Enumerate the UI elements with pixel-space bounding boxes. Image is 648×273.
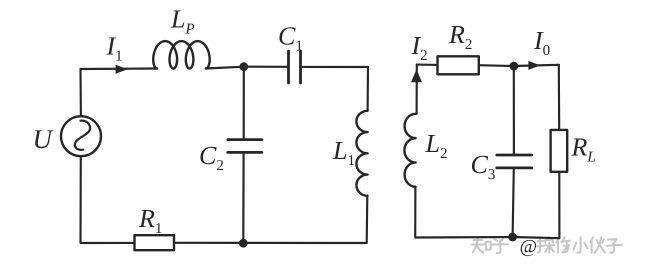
arrow I0 bbox=[528, 61, 540, 70]
arrow I2 bbox=[411, 69, 422, 82]
watermark char tan bbox=[537, 237, 554, 253]
capacitor C2 bbox=[228, 140, 262, 153]
wire: L1 to bottom-right corner to R1 bbox=[174, 196, 367, 243]
watermark char huo bbox=[590, 237, 604, 253]
wire: right circuit left vertical with I2 bbox=[416, 65, 418, 114]
resistor R2 bbox=[438, 56, 479, 74]
junction node: top of C3 bbox=[509, 62, 518, 71]
svg-text:U: U bbox=[33, 124, 54, 154]
source U circle bbox=[61, 116, 101, 156]
wire: right circuit right vertical down to RL bbox=[558, 65, 561, 130]
watermark char hu bbox=[492, 237, 508, 253]
wire: node A to C1 left plate bbox=[244, 66, 288, 68]
wire: R1 to bottom-left corner up to source U bbox=[81, 156, 135, 243]
watermark char zi bbox=[607, 239, 622, 253]
watermark char zhi bbox=[472, 237, 485, 252]
wire: C1 to top-right corner and down to L1 bbox=[301, 67, 369, 111]
junction node: top of C2 bbox=[239, 62, 248, 71]
arrow I1 bbox=[116, 65, 128, 74]
wire: LP to node A bbox=[206, 67, 244, 69]
resistor RL bbox=[551, 130, 568, 172]
wire: left circuit top, from source branch to C1 bbox=[81, 67, 158, 70]
wire: right circuit top, corner to R2 bbox=[417, 64, 438, 66]
wire: L2 down to bottom-left corner of right circuit bbox=[415, 187, 512, 238]
wire: source U up to top-left corner bbox=[79, 69, 82, 116]
junction node: bottom of C2 bbox=[239, 239, 248, 248]
resistor R1 bbox=[135, 235, 175, 250]
wire: R2 to node B to corner bbox=[479, 65, 559, 66]
wire: C3 to bottom node B2 bbox=[513, 168, 514, 237]
watermark char shang bbox=[557, 237, 570, 252]
wire: C2 to bottom node bbox=[242, 152, 244, 243]
wire: C2 branch vertical bbox=[243, 67, 245, 140]
wire: C3 branch vertical bbox=[513, 66, 515, 155]
junction node: bottom of C3 bbox=[508, 233, 517, 242]
inductor LP bbox=[153, 41, 209, 68]
capacitor C1 bbox=[289, 51, 301, 83]
capacitor C3 bbox=[497, 155, 532, 168]
source U sine bbox=[75, 121, 90, 150]
watermark char xiao bbox=[573, 237, 587, 252]
watermark zhihu bbox=[472, 237, 508, 253]
wire: RL down to bottom-right corner bbox=[513, 172, 560, 238]
inductor L1 bbox=[356, 111, 367, 196]
svg-text:@: @ bbox=[520, 236, 537, 257]
inductor L2 bbox=[404, 114, 415, 187]
